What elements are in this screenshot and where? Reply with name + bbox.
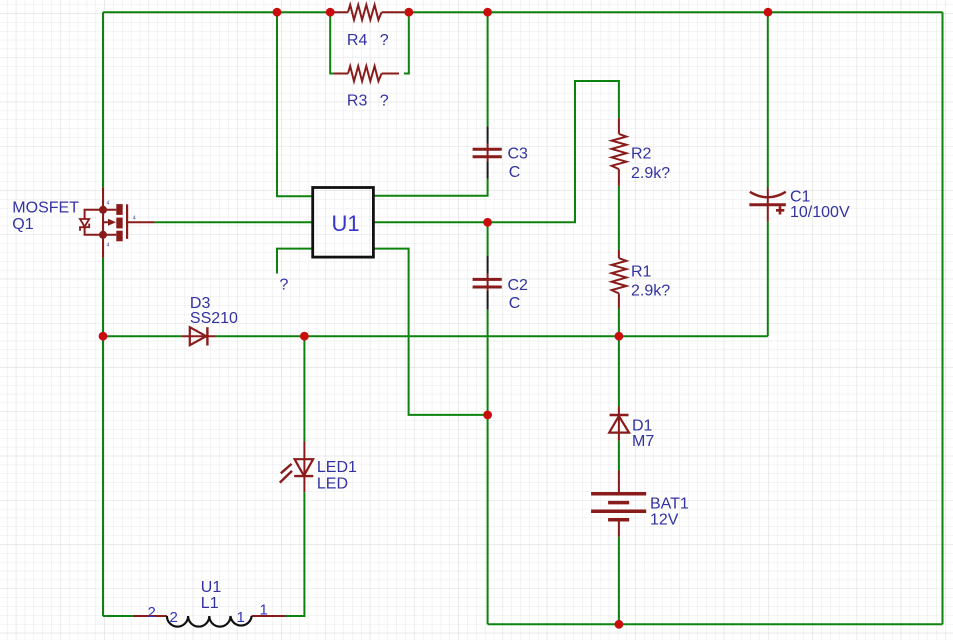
svg-text:M7: M7 [632,433,654,450]
wire R2 to R1 link [618,186,620,250]
wire C1 top riser [767,12,769,187]
svg-text:Q1: Q1 [12,216,33,233]
svg-text:BAT1: BAT1 [650,496,689,513]
svg-text:C3: C3 [508,146,529,163]
wire gate to U1 mid-left pin [154,221,312,223]
resistor R3 [334,66,399,81]
diode D3 [182,327,216,345]
junction top rail / R4-R3 right [404,8,413,17]
svg-text:L1: L1 [201,595,219,612]
svg-text:2: 2 [170,609,178,626]
wire right border [942,12,944,624]
junction BAT1 / bottom rail [615,620,624,629]
svg-text:D1: D1 [632,418,653,435]
wire mid rail left of D3 [103,335,182,337]
junction mid rail / R1-D1 [615,332,624,341]
svg-text:?: ? [380,92,389,109]
svg-text:4: 4 [107,242,110,248]
wire U1 mid-right pin to R2 top [373,81,619,222]
battery BAT1 [591,471,646,537]
svg-text:C1: C1 [790,189,811,206]
svg-text:C: C [509,164,521,181]
svg-text:LED: LED [317,476,348,493]
LED LED1 [280,442,314,493]
junction top rail / C1 [764,8,773,17]
wire D1 to BAT1 [618,441,620,471]
wire bottom-right rail [488,623,943,625]
svg-text:4: 4 [133,215,136,221]
svg-text:U1: U1 [201,579,222,596]
resistor R1 [612,250,627,309]
resistor R2 [612,118,627,186]
svg-text:R3: R3 [347,92,368,109]
wire R3 right vertical [404,12,409,73]
wire C3 pin black lower [487,162,489,179]
transistor Q1 (MOSFET) [80,187,154,257]
svg-text:2: 2 [148,604,156,621]
wire R3 left vertical [330,12,334,73]
svg-text:?: ? [280,277,289,294]
wire C3 top feed [487,12,489,126]
junction mid rail / left border [99,332,108,341]
capacitor C2 [473,274,502,292]
inductor L1 [133,616,286,627]
capacitor C3 [473,144,502,162]
wire C2 pin black upper [487,256,489,274]
wire bottom-left rail to L1 [103,615,133,617]
wire C2 bottom to node [487,310,489,415]
resistor R4 [334,5,404,20]
svg-text:LED1: LED1 [317,459,357,476]
svg-text:R4: R4 [347,32,368,49]
wire BAT1 to bottom rail [618,537,620,625]
svg-text:1: 1 [260,602,268,619]
wire C3 bottom to U1 top-right pin [373,179,487,196]
wire C2 pin black lower [487,291,489,310]
junction C2 bottom / U1 bottom-right [483,411,492,420]
svg-text:12V: 12V [650,512,679,529]
svg-text:?: ? [380,32,389,49]
wire riser from node to bottom-right rail [487,415,489,624]
wire LED to mid rail [303,336,305,441]
wire L1 to LED riser corner [286,492,305,616]
svg-text:1: 1 [237,609,245,626]
svg-text:R2: R2 [631,146,652,163]
capacitor C1 (polarized) [749,188,785,222]
wire left border upper (drain feed) [102,12,104,187]
svg-text:MOSFET: MOSFET [12,200,79,217]
junction C2 / U1 mid-right [483,218,492,227]
wire U1 top-left pin riser [277,12,313,196]
wire C3 pin black upper [487,126,489,143]
wire top rail [103,11,943,13]
junction top rail / R4-R3 left [326,8,335,17]
wire left border lower [102,336,104,616]
wire mid rail right of D3 [216,335,768,337]
diode D1 [609,406,629,440]
svg-text:C2: C2 [508,277,529,294]
wire C1 bottom riser [767,222,769,336]
wire U1 bottom-left stub [277,249,313,274]
chip U1 [313,188,374,258]
wire mid rail to D1 [618,336,620,406]
wire node to C2 top [487,222,489,256]
wire MOSFET source to mid rail [102,258,104,337]
junction mid rail / LED riser [300,332,309,341]
svg-text:SS210: SS210 [190,310,238,327]
svg-text:4: 4 [107,201,110,207]
svg-text:2.9k?: 2.9k? [631,165,670,182]
svg-text:R1: R1 [631,263,652,280]
junction top rail / U1 riser [273,8,282,17]
svg-text:C: C [509,295,521,312]
junction top rail / C3 [483,8,492,17]
svg-text:U1: U1 [332,211,360,236]
wire R1 bottom to mid rail [618,309,620,337]
svg-text:10/100V: 10/100V [790,204,850,221]
wire U1 bottom-right pin to node [373,249,487,415]
svg-text:2.9k?: 2.9k? [631,283,670,300]
